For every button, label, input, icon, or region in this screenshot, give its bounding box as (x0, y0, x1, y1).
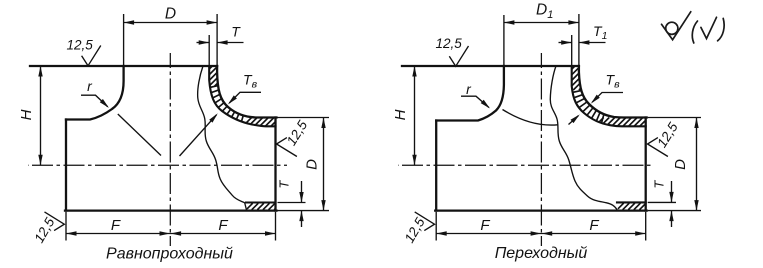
right tee: roughness mark 12,5 on right face (rotated) (648, 138, 668, 157)
right tee: hatching of branch wall section at top (564, 66, 581, 90)
svg-text:Равнопроходный: Равнопроходный (106, 246, 233, 263)
right tee: vertical centerline of branch (540, 53, 542, 246)
right tee: branch bore wall with bend and outlet bore top (section) (572, 66, 646, 126)
left tee: dimension T arrows (197, 42, 210, 44)
svg-text:D: D (165, 6, 176, 23)
left tee: break (wavy) line of local section (198, 66, 247, 210)
svg-text:F: F (589, 217, 599, 234)
right tee: outlet bore bottom line (section) (617, 201, 646, 203)
left tee: hatching of bend wall section (fan) (203, 85, 245, 128)
left tee: dimension D line with arrows (124, 22, 218, 24)
right tee: branch left outer wall with neck transition curve (436, 66, 504, 121)
left tee: top face line (30, 65, 217, 67)
right tee: dimension T bottom right (648, 201, 676, 203)
right tee: branch right outer wall with bend fillet and outlet top face (579, 66, 647, 118)
right tee: hatching of outlet bottom wall section (618, 203, 645, 210)
svg-text:F: F (111, 217, 121, 234)
svg-text:Переходный: Переходный (495, 245, 588, 262)
right tee: short leader arrow to bend wall (569, 116, 579, 125)
svg-text:T: T (231, 24, 241, 40)
left tee: branch left outer wall with neck transition curve (66, 66, 124, 120)
svg-text:12,5: 12,5 (67, 38, 94, 53)
surface finish note: parentheses with check (692, 17, 724, 43)
left tee: right end face (274, 118, 276, 211)
left tee: dimension F F line with arrows (66, 233, 276, 235)
left tee: bore transition leader with arrow to bend wall (180, 115, 217, 156)
left tee: hatching of outlet top wall section (246, 118, 276, 127)
svg-text:F: F (218, 217, 228, 234)
right tee: dimension F F line with arrows (436, 233, 646, 235)
left tee: extension line of branch left wall for dimension D (123, 14, 125, 66)
left tee: hatching of outlet bottom wall section (247, 203, 275, 209)
right tee: dimension H line with arrows (414, 66, 416, 165)
right tee: extension lines for F (435, 212, 437, 241)
left tee: extension lines for F (65, 212, 67, 241)
right tee: right end face (645, 118, 647, 211)
right tee: extension line of branch right outer wall for dimension D1 (578, 14, 580, 66)
right tee: dimension D1 line with arrows (504, 22, 579, 24)
svg-text:F: F (480, 217, 490, 234)
right tee: left end face (435, 121, 437, 211)
svg-text:D: D (672, 159, 689, 170)
svg-text:12,5: 12,5 (436, 36, 463, 51)
svg-text:H: H (18, 109, 35, 120)
left tee: branch bore wall with bend and outlet bore top (section) (209, 66, 275, 126)
left tee: dimension T bottom right (278, 202, 306, 204)
right tee: dimension D right side with arrows (648, 117, 701, 119)
left tee: branch right outer wall with bend fillet and outlet top face (217, 66, 276, 118)
svg-text:T: T (652, 180, 667, 189)
svg-text:D: D (304, 159, 321, 170)
left tee: vertical centerline of branch (169, 53, 171, 246)
right tee: break (wavy) line of local section (550, 66, 617, 210)
left tee: roughness mark 12,5 on left face (rotated) (45, 212, 65, 231)
left tee: outlet bore bottom line (section) (246, 201, 276, 203)
right tee: horizontal centerline of run (398, 164, 652, 166)
left tee: horizontal centerline of run (28, 164, 287, 166)
left tee: extension line of branch bore wall for dimension T (208, 35, 210, 66)
left tee: extension line of branch right outer wall for dimension D (216, 14, 218, 66)
right tee: hatching of outlet top wall section (598, 118, 646, 127)
left tee: bore transition line left (118, 114, 161, 156)
left tee: roughness mark 12,5 on right face (rotated) (277, 138, 297, 157)
left tee: bottom face (65, 209, 277, 211)
svg-text:H: H (392, 109, 409, 120)
left tee: left end face (65, 120, 67, 211)
right tee: bore silhouette arc of reduced branch (503, 110, 558, 126)
svg-text:T: T (277, 180, 292, 189)
right tee: extension line of branch left wall for dimension D1 (503, 15, 505, 66)
surface finish note: check symbol with circle (662, 12, 691, 40)
left tee: dimension D right side with arrows (278, 117, 330, 119)
right tee: bottom face (435, 209, 647, 211)
left tee: dimension H line with arrows (40, 66, 42, 165)
right tee: roughness mark 12,5 on left face (rotated) (415, 212, 435, 231)
right tee: dimension T1 arrows (559, 42, 572, 44)
right tee: top face line (402, 65, 579, 67)
right tee: hatching of bend wall section (fan) (568, 90, 606, 128)
right tee: extension line of branch bore wall for dimension T1 (571, 35, 573, 66)
left tee: hatching of branch wall section at top (201, 66, 219, 86)
